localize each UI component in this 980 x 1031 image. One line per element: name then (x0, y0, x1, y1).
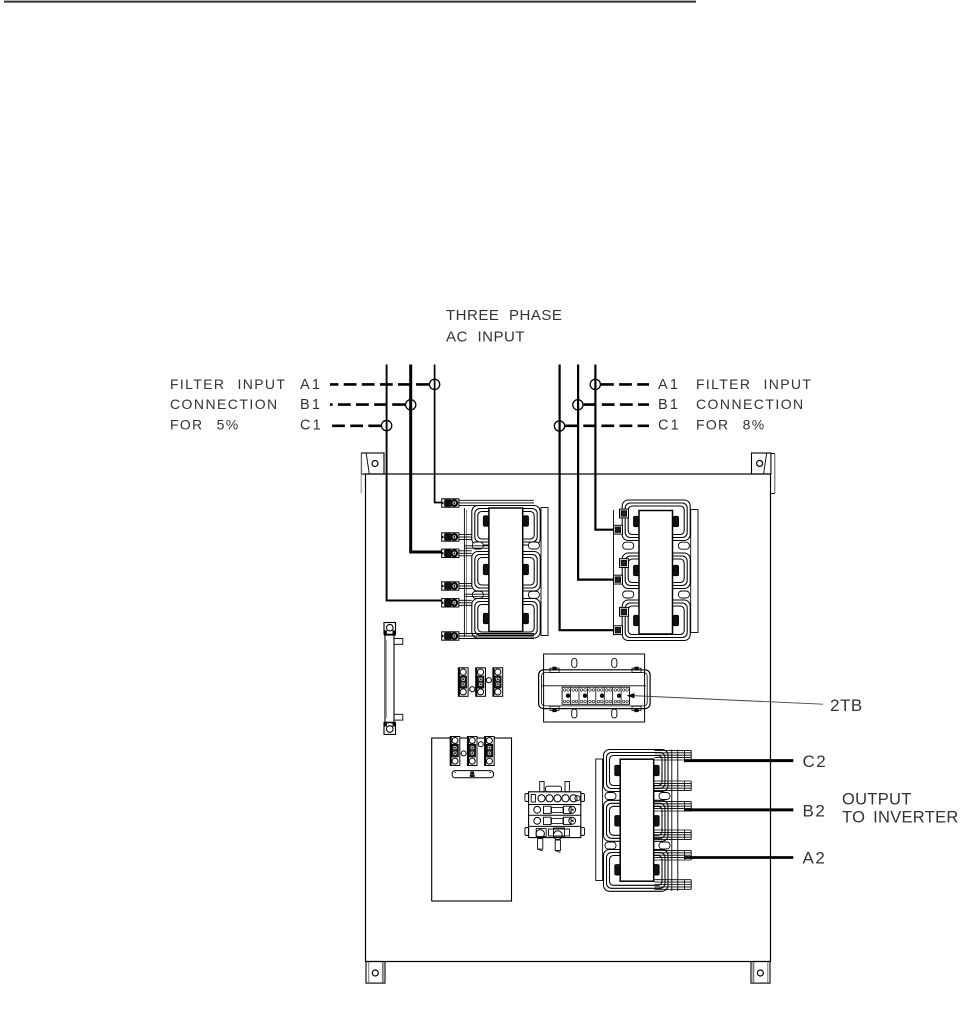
dashed tap A1 right (601, 383, 649, 386)
output reactor coil C rings (604, 850, 669, 892)
wire phase B1 right (8%) (578, 365, 614, 580)
ground busbar bottom lug (384, 723, 396, 735)
svg-text:C2: C2 (803, 752, 828, 771)
dashed tap B1 right (584, 403, 649, 406)
wire phase B1 left (5%) (411, 365, 443, 553)
dashed tap B1 left (330, 403, 405, 406)
panel terminal strip 2 (467, 737, 477, 766)
svg-text:TO INVERTER: TO INVERTER (842, 809, 959, 827)
net labels A1 B1 C1 left (300, 377, 323, 434)
wire phase C1 left (5%) (387, 365, 443, 601)
2TB mounting plate (544, 654, 645, 722)
contactor top pins (540, 782, 570, 792)
output reactor slots (605, 793, 670, 850)
output reactor coil A rings (604, 750, 669, 792)
reactor right 8% terminal s4 (614, 575, 623, 584)
svg-text:CONNECTION: CONNECTION (170, 396, 279, 412)
node circle A1 right (590, 379, 600, 389)
reactor right 8% coil C rings (622, 600, 690, 641)
svg-text:AC INPUT: AC INPUT (446, 329, 525, 346)
contactor body (529, 792, 581, 838)
reactor left 5% terminal 5 (442, 599, 459, 607)
label 2TB (830, 696, 863, 715)
wire C2 output (684, 759, 793, 762)
wire phase A1 right (8%) (595, 365, 614, 530)
output reactor core (620, 759, 654, 881)
contactor bottom section (536, 828, 570, 840)
output reactor wedges (615, 765, 660, 875)
svg-text:FILTER INPUT: FILTER INPUT (696, 376, 812, 392)
node circle C1 left (381, 420, 391, 430)
2TB oval slots (572, 658, 617, 718)
svg-text:FOR 8%: FOR 8% (696, 417, 765, 433)
label FILTER INPUT CONNECTION FOR 8% (696, 376, 812, 433)
reactor left 5% backplate (464, 508, 548, 638)
mounting tab top-left (361, 453, 384, 494)
reactor left 5% lead bundles (459, 500, 534, 638)
svg-text:C1: C1 (300, 418, 323, 434)
reactor right 8% backplate (614, 510, 699, 635)
svg-text:2TB: 2TB (830, 696, 863, 715)
svg-text:THREE PHASE: THREE PHASE (446, 307, 562, 324)
svg-text:OUTPUT: OUTPUT (842, 791, 912, 809)
reactor right 8% coil A rings (622, 500, 690, 541)
label OUTPUT TO INVERTER (842, 791, 959, 827)
wire phase A1 left (5%) (435, 365, 443, 503)
capacitor panel outline (432, 738, 512, 901)
reactor right 8% terminal s5 (620, 607, 629, 616)
contactor top terminals (531, 795, 580, 803)
output reactor backplate (596, 759, 603, 881)
reactor right 8% winding slots (623, 542, 690, 598)
node circle C1 right (554, 421, 564, 431)
svg-text:C1: C1 (658, 418, 681, 434)
node circle B1 left (406, 400, 416, 410)
panel terminal strip 1 (450, 737, 460, 766)
contactor coil row 1 (534, 806, 576, 813)
output reactor coil B rings (604, 800, 669, 841)
reactor left 5% coil B rings (472, 552, 540, 592)
panel strip holes (461, 742, 483, 756)
svg-text:B2: B2 (803, 802, 827, 821)
label C2 (803, 752, 828, 771)
busbar side tab bottom (394, 714, 403, 720)
fuse strip 1 (458, 668, 468, 697)
reactor left 5% terminal 1 (442, 499, 459, 507)
label A2 (803, 849, 827, 868)
ground busbar body (385, 634, 394, 724)
mounting tab bottom-right (751, 962, 770, 984)
fuse strip 2 (476, 668, 486, 697)
svg-text:A1: A1 (658, 377, 680, 393)
ground busbar top lug (384, 623, 396, 635)
wire A2 output (684, 856, 793, 859)
svg-text:FILTER INPUT: FILTER INPUT (170, 376, 286, 392)
2TB corner clips (550, 667, 641, 712)
reactor right 8% terminal s2 (614, 525, 623, 534)
fuse strip small holes (470, 678, 492, 692)
wire B2 output (684, 808, 793, 811)
label FILTER INPUT CONNECTION FOR 5% (170, 376, 286, 433)
reactor right 8% terminal s1 (620, 509, 629, 518)
2TB housing (539, 670, 651, 709)
reactor right 8% core (639, 511, 673, 635)
cabinet enclosure outline (366, 474, 771, 962)
output reactor lead bundles (655, 750, 692, 892)
reactor left 5% core (489, 508, 523, 632)
dashed tap A1 left (330, 383, 429, 386)
node circle A1 left (429, 379, 439, 389)
reactor left 5% terminal 6 (442, 632, 459, 640)
reactor right 8% coil wedges (634, 516, 679, 626)
reactor left 5% terminal 3 (442, 549, 459, 557)
reactor right 8% coil B rings (622, 553, 690, 589)
reactor left 5% terminal 2 (442, 533, 459, 541)
svg-text:A1: A1 (300, 377, 322, 393)
svg-text:CONNECTION: CONNECTION (696, 396, 805, 412)
svg-text:B1: B1 (300, 397, 322, 413)
reactor left 5% winding slots (472, 542, 539, 598)
dashed tap C1 left (330, 424, 381, 427)
top rule (4, 1, 696, 3)
panel label bar (452, 771, 493, 778)
svg-text:FOR 5%: FOR 5% (170, 417, 239, 433)
wire phase C1 right (8%) (560, 365, 614, 631)
reactor right 8% terminal s3 (620, 559, 629, 568)
contactor screw tails (538, 839, 561, 853)
label B2 (803, 802, 827, 821)
title THREE PHASE AC INPUT (446, 307, 562, 346)
reactor left 5% coil A rings (472, 506, 540, 546)
2TB leader arrow (627, 693, 823, 704)
mounting tab bottom-left (366, 962, 385, 984)
reactor left 5% coil wedges (483, 516, 528, 624)
panel terminal strip 3 (485, 737, 495, 766)
busbar side tab top (394, 639, 403, 645)
contactor side ears (525, 794, 585, 836)
dashed tap C1 right (565, 424, 649, 427)
fuse strip 3 (493, 668, 503, 697)
net labels A1 B1 C1 right (658, 377, 681, 434)
svg-text:A2: A2 (803, 849, 827, 868)
node circle B1 right (573, 400, 583, 410)
contactor coil row 2 (534, 817, 576, 824)
svg-text:B1: B1 (658, 397, 680, 413)
mounting tab top-right (752, 453, 775, 494)
reactor left 5% coil C rings (472, 599, 540, 639)
reactor left 5% terminal 4 (442, 582, 459, 590)
2TB terminal row (562, 687, 629, 704)
reactor right 8% terminal s6 (614, 626, 623, 635)
